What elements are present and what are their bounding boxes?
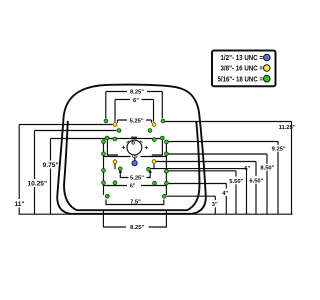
- cross mark left: [122, 146, 125, 149]
- svg-text:5/16"- 18 UNC =: 5/16"- 18 UNC =: [218, 74, 264, 83]
- dim 7.5" bracket: [106, 200, 164, 205]
- bottom dim 8.25" bracket: [103, 211, 166, 228]
- svg-text:4": 4": [222, 191, 228, 197]
- left extension 10.25" row: [35, 130, 117, 132]
- baseline (common dimension datum): [19, 213, 293, 215]
- left extension 9.75" row: [51, 138, 113, 140]
- legend yellow circle: [264, 65, 271, 72]
- bolt hole G4 5/16-18: [148, 129, 152, 133]
- bolt hole G2 5/16-18: [161, 119, 165, 123]
- left bolt column line: [103, 142, 105, 195]
- left vertical 9.75": [50, 139, 52, 215]
- bolt hole G18 5/16-18: [165, 181, 169, 185]
- left extension 11" row: [19, 124, 112, 126]
- right extension 4" row: [169, 183, 227, 185]
- inner bracket left: [107, 139, 118, 156]
- legend green circle: [264, 75, 271, 82]
- seat pan inner wall: [64, 121, 200, 210]
- center tab notch: [132, 137, 137, 138]
- bolt hole G15 5/16-18: [102, 169, 106, 173]
- svg-text:8.25": 8.25": [130, 89, 144, 95]
- svg-text:9.75": 9.75": [43, 162, 59, 169]
- left vertical 11": [18, 125, 20, 215]
- top dim 6" line: [115, 100, 154, 122]
- legend box: [212, 51, 276, 87]
- right extension 6" row: [151, 168, 247, 170]
- svg-text:11.25": 11.25": [279, 125, 296, 131]
- bolt hole Y3 3/8-16: [113, 160, 117, 164]
- bolt hole 1/2 blue: [132, 161, 137, 166]
- bolt hole G20 5/16-18: [153, 181, 157, 185]
- legend blue circle: [264, 54, 271, 61]
- right bolt column line: [165, 142, 167, 195]
- right vertical 5.50": [235, 171, 237, 214]
- svg-text:3": 3": [212, 202, 218, 208]
- right vertical 6": [246, 169, 248, 215]
- svg-text:6.50": 6.50": [249, 179, 263, 185]
- bolt hole G19 5/16-18: [113, 181, 117, 185]
- small marks under circle: [132, 155, 138, 160]
- circle 6" diameter ticks: [127, 141, 143, 143]
- bolt hole G3 5/16-18: [117, 129, 121, 133]
- right vertical 6.50": [255, 162, 257, 215]
- right vertical 8.50": [266, 154, 268, 214]
- svg-text:8.25": 8.25": [130, 225, 144, 231]
- center horizontal line: [104, 156, 167, 158]
- right vertical 9.25": [277, 142, 279, 215]
- blue bolt stem: [134, 158, 136, 161]
- bolt hole G8 5/16-18: [161, 136, 165, 140]
- bolt hole G7 5/16-18: [152, 138, 156, 142]
- bolt hole Y1 3/8-16: [113, 123, 117, 127]
- svg-text:6": 6": [130, 183, 136, 189]
- svg-text:5.50": 5.50": [229, 179, 243, 185]
- svg-text:9.25": 9.25": [272, 147, 286, 153]
- inner dim 6" bottom: [104, 185, 167, 187]
- top dim 5.25" line: [118, 120, 152, 123]
- bolt hole G16 5/16-18: [165, 169, 169, 173]
- bolt hole G6 5/16-18: [113, 137, 117, 141]
- right extension 9.25" row: [169, 141, 279, 143]
- cross mark right: [145, 146, 148, 149]
- bolt hole G17 5/16-18: [102, 181, 106, 185]
- bolt hole G9 5/16-18: [102, 140, 106, 144]
- inner bracket right: [152, 139, 163, 156]
- right vertical 3": [214, 196, 216, 214]
- svg-text:6": 6": [244, 166, 250, 172]
- right vertical 11.25": [291, 122, 293, 215]
- svg-text:1/2"- 13 UNC =: 1/2"- 13 UNC =: [221, 53, 264, 62]
- label 6 circle diameter: [132, 140, 136, 144]
- bolt hole G11 5/16-18: [102, 152, 106, 156]
- bolt hole G10 5/16-18: [165, 140, 169, 144]
- right extension 8.50" row: [168, 153, 267, 155]
- svg-text:6": 6": [133, 98, 139, 104]
- bolt hole G12 5/16-18: [165, 152, 169, 156]
- bolt hole Y2 3/8-16: [152, 123, 156, 127]
- svg-text:5.25": 5.25": [130, 176, 144, 182]
- right extension 6.50" row: [156, 161, 256, 163]
- svg-text:5.25": 5.25": [130, 118, 144, 124]
- bolt holes 5/16 green: [102, 119, 169, 198]
- bolt hole G1 5/16-18: [104, 119, 108, 123]
- dimension labels: [14, 89, 295, 231]
- right extension 5.50" row: [168, 170, 236, 172]
- svg-text:8.50": 8.50": [260, 166, 274, 172]
- right extension 11.25" row: [165, 121, 292, 123]
- bolt holes 3/8 yellow: [113, 123, 156, 164]
- svg-text:3/8"- 16 UNC =: 3/8"- 16 UNC =: [221, 64, 264, 73]
- svg-text:7.5": 7.5": [130, 200, 141, 206]
- bolt hole G22 5/16-18: [162, 194, 166, 198]
- top dim 8.25" line: [106, 92, 163, 119]
- bolt hole G5 5/16-18: [105, 136, 109, 140]
- inner row line through circle: [107, 138, 162, 140]
- seat pan outer outline: [57, 85, 206, 214]
- svg-text:11": 11": [14, 201, 24, 208]
- center circle 6": [127, 140, 142, 155]
- svg-text:10.25": 10.25": [27, 181, 47, 188]
- bolt hole G13 5/16-18: [118, 167, 122, 171]
- bolt hole G21 5/16-18: [105, 194, 109, 198]
- right vertical 4": [225, 184, 227, 215]
- inner dim 5.25" bottom: [115, 164, 154, 178]
- bolt hole G14 5/16-18: [147, 167, 151, 171]
- left vertical 10.25": [34, 131, 36, 215]
- bolt hole Y4 3/8-16: [152, 160, 156, 164]
- right extension 3" row: [167, 195, 215, 197]
